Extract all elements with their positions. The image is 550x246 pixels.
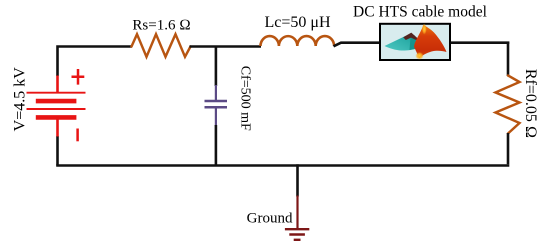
DC HTS cable model box [380,24,450,60]
svg-text:Rs=1.6 Ω: Rs=1.6 Ω [132,18,190,34]
wire battery negative to bottom [56,136,59,166]
svg-text:Rf=0.05 Ω: Rf=0.05 Ω [522,69,539,138]
svg-text:Ground: Ground [247,211,293,227]
wire top-mid [190,45,262,48]
svg-text:V=4.5 kV: V=4.5 kV [12,67,29,132]
MATLAB logo [385,24,447,60]
wire capacitor bottom [215,125,218,166]
wire inductor to box (diagonal jog) [334,43,381,47]
ground symbol [285,196,309,240]
wire right vertical bottom [507,133,510,164]
battery minus sign [76,129,79,142]
inductor Lc [261,36,335,46]
battery V1 [27,76,86,137]
svg-text:Cf=500 mF: Cf=500 mF [237,66,252,131]
wire left vertical + top-left horizontal [58,47,133,77]
wire ground stub [296,164,299,196]
svg-text:DC HTS cable model: DC HTS cable model [353,4,487,21]
svg-text:Lc=50 μH: Lc=50 μH [264,14,330,31]
wire right vertical top [507,42,510,77]
wire capacitor top [215,47,218,87]
wire bottom [56,164,509,167]
battery plus sign [72,69,85,85]
wire box to right [451,41,510,44]
resistor Rf [496,76,520,134]
capacitor Cf [205,85,228,126]
resistor Rs [132,34,191,57]
